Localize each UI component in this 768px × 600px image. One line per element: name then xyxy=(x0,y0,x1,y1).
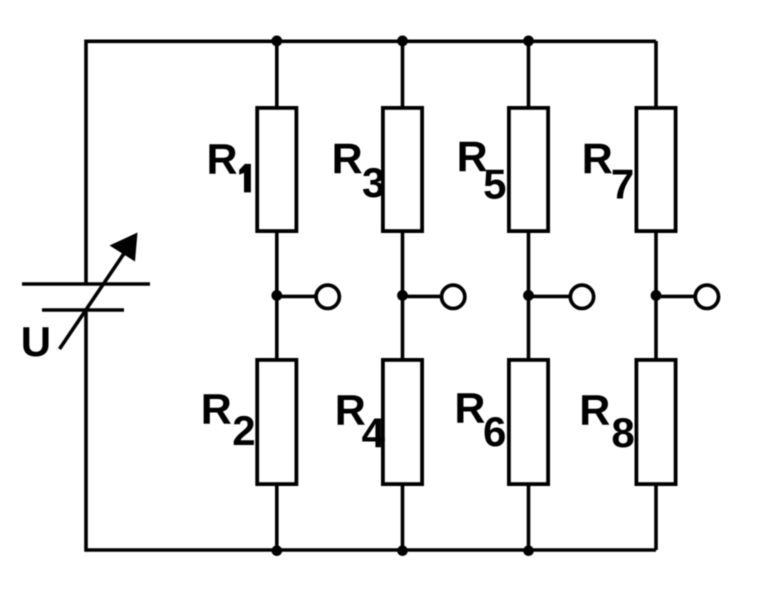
wire branch 1 upper xyxy=(275,41,279,296)
wire tap 3 xyxy=(529,295,570,299)
wire branch 4 lower xyxy=(654,296,658,550)
wire bottom rail xyxy=(86,548,656,552)
resistor R7 xyxy=(636,108,675,231)
resistor R8 xyxy=(636,360,675,484)
node tap junction 4 xyxy=(651,290,662,301)
label R3 xyxy=(332,135,386,206)
resistor R1 xyxy=(257,108,296,231)
wire branch 4 upper xyxy=(654,41,658,296)
svg-text:6: 6 xyxy=(483,408,506,455)
svg-text:U: U xyxy=(21,318,51,365)
wire branch 1 lower xyxy=(275,296,279,550)
label R5 xyxy=(457,133,507,207)
svg-text:R: R xyxy=(582,135,613,183)
resistor R6 xyxy=(509,360,548,484)
svg-text:5: 5 xyxy=(483,160,506,207)
label R2 xyxy=(201,386,256,454)
node bottom rail junction 2 xyxy=(397,545,408,556)
terminal circle 3 xyxy=(570,285,593,308)
node top rail junction 1 xyxy=(271,36,282,47)
terminal circle 4 xyxy=(695,285,718,308)
terminal circle 2 xyxy=(442,285,465,308)
wire left branch upper segment xyxy=(84,40,88,285)
label R6 xyxy=(454,384,506,455)
wire branch 2 lower xyxy=(401,296,405,550)
svg-text:3: 3 xyxy=(362,159,385,206)
svg-text:8: 8 xyxy=(611,409,634,456)
resistor R5 xyxy=(509,108,548,231)
label R4 xyxy=(335,387,386,457)
wire tap 2 xyxy=(403,295,441,299)
wire tap 4 xyxy=(656,295,695,299)
wire tap 1 xyxy=(277,295,316,299)
label R1 xyxy=(207,136,251,193)
voltage source U variability arrow xyxy=(60,233,138,350)
svg-text:R: R xyxy=(454,384,485,432)
voltage source U short plate xyxy=(42,308,124,312)
node bottom rail junction 3 xyxy=(523,545,534,556)
node top rail junction 2 xyxy=(397,36,408,47)
svg-text:4: 4 xyxy=(362,410,386,457)
node bottom rail junction 1 xyxy=(272,545,283,556)
node tap junction 1 xyxy=(271,290,282,301)
wire branch 3 lower xyxy=(527,296,531,550)
voltage source U long plate xyxy=(22,282,150,286)
terminal circle 1 xyxy=(316,285,339,308)
resistor R2 xyxy=(257,360,296,484)
svg-text:2: 2 xyxy=(232,407,255,454)
svg-text:R: R xyxy=(332,135,363,183)
resistor R3 xyxy=(383,108,422,231)
svg-text:R: R xyxy=(579,387,610,435)
node top rail junction 3 xyxy=(523,36,534,47)
wire top rail xyxy=(86,39,656,43)
node tap junction 2 xyxy=(397,290,408,301)
label R8 xyxy=(579,387,634,456)
svg-text:7: 7 xyxy=(611,161,634,208)
node tap junction 3 xyxy=(523,290,534,301)
label R7 xyxy=(582,135,635,207)
svg-text:R: R xyxy=(201,386,232,434)
wire branch 2 upper xyxy=(401,41,405,296)
wire left branch lower segment xyxy=(84,310,88,552)
svg-text:R: R xyxy=(207,136,238,184)
wire branch 3 upper xyxy=(527,41,531,296)
resistor R4 xyxy=(383,360,422,484)
